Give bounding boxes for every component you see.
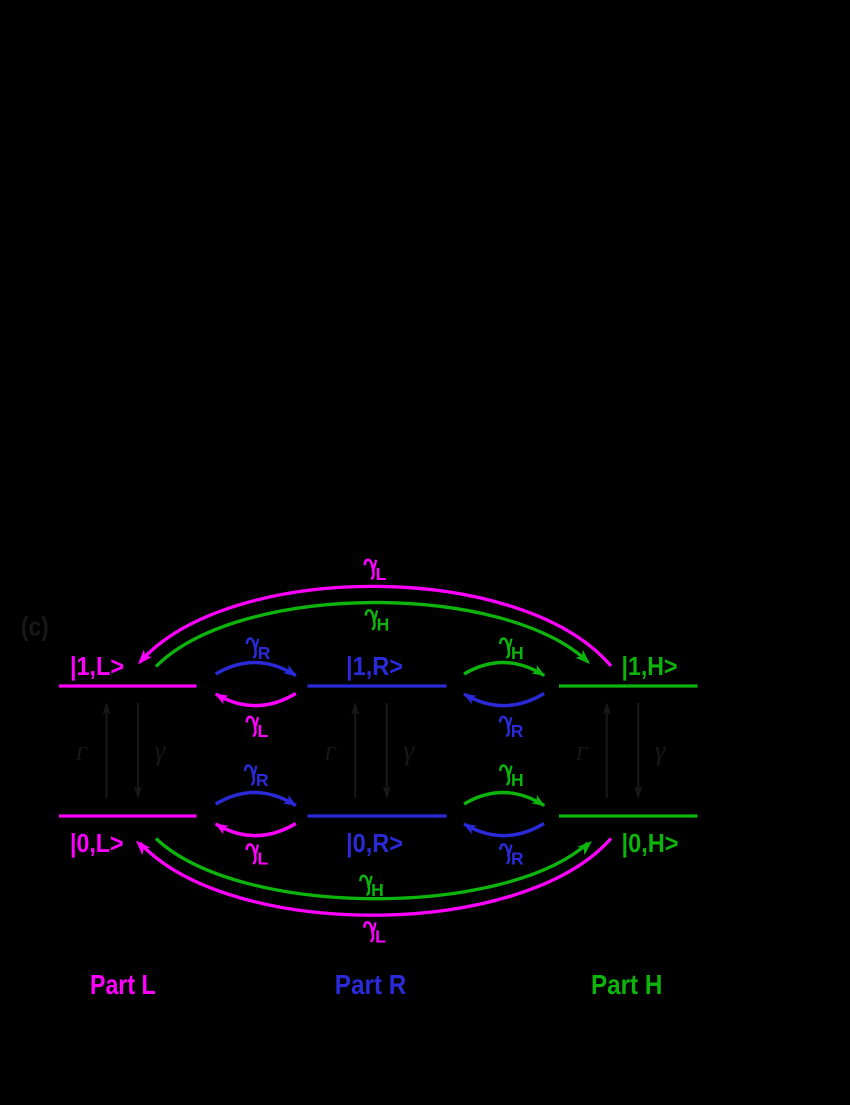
- svg-text:γ: γ: [403, 736, 415, 766]
- svg-text:Part L: Part L: [90, 969, 156, 1000]
- svg-text:|1,L>: |1,L>: [70, 651, 124, 681]
- svg-text:H: H: [511, 643, 524, 663]
- svg-text:Part H: Part H: [591, 969, 662, 1000]
- svg-text:L: L: [258, 721, 269, 741]
- svg-text:(c): (c): [21, 612, 49, 642]
- svg-text:R: R: [258, 643, 271, 663]
- svg-text:R: R: [511, 721, 524, 741]
- svg-text:L: L: [375, 927, 386, 947]
- svg-text:L: L: [258, 849, 269, 869]
- svg-text:|1,H>: |1,H>: [622, 651, 678, 681]
- svg-text:Part R: Part R: [335, 969, 407, 1000]
- svg-text:Γ: Γ: [575, 743, 589, 765]
- svg-text:H: H: [377, 615, 390, 635]
- svg-text:H: H: [511, 770, 524, 790]
- svg-text:R: R: [511, 849, 524, 869]
- svg-text:L: L: [376, 564, 387, 584]
- svg-text:γ: γ: [655, 736, 667, 766]
- svg-text:Γ: Γ: [75, 743, 89, 765]
- svg-text:R: R: [256, 770, 269, 790]
- svg-text:|0,L>: |0,L>: [70, 828, 124, 858]
- svg-text:Γ: Γ: [324, 743, 338, 765]
- svg-text:|0,H>: |0,H>: [622, 828, 679, 858]
- svg-text:γ: γ: [155, 736, 167, 766]
- svg-text:H: H: [371, 880, 384, 900]
- svg-text:|1,R>: |1,R>: [346, 651, 403, 681]
- svg-text:|0,R>: |0,R>: [346, 828, 403, 858]
